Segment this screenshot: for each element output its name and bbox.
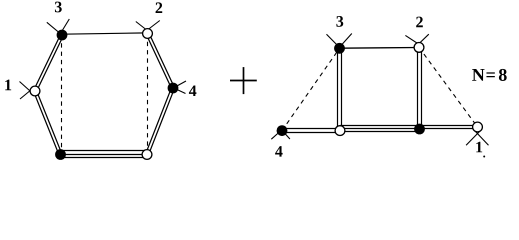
external leg cross at node 3 (left diagram) xyxy=(47,22,65,37)
plus sign between diagrams xyxy=(230,80,257,82)
wire: double edge 4-bottom-right (left diagram) xyxy=(146,87,172,154)
wire: double vertical edge 3-to-bottom (right diagram) xyxy=(337,48,339,130)
wire: dashed chord 3-to-bottom-left (left diagram) xyxy=(61,35,63,155)
external leg cross at node 4 (right diagram) xyxy=(271,128,284,140)
external leg cross at node 3 (right diagram) xyxy=(327,34,343,50)
external leg cross at node 2 (left diagram) xyxy=(136,22,151,34)
wire: dashed chord 2-to-bottom-right (left diagram) xyxy=(147,34,149,155)
external leg cross at node 1 (right diagram) xyxy=(466,131,480,146)
node: filled bottom mid-right vertex (right diagram) xyxy=(414,124,425,135)
external leg cross at node 2 (right diagram) xyxy=(405,35,421,46)
label 3 (right diagram) xyxy=(336,16,343,27)
node 3: filled vertex (right diagram) xyxy=(334,43,345,54)
wire: single top edge 3-2 (left diagram) xyxy=(62,33,148,34)
external leg cross at node 1 (left diagram) xyxy=(20,82,35,96)
label 2 (right diagram) xyxy=(416,17,423,28)
node 1: open vertex (right diagram) xyxy=(473,122,483,132)
node 1: open vertex (left diagram) xyxy=(30,86,40,96)
node 3: filled vertex (left diagram) xyxy=(57,30,68,41)
stray period dot below label 1 (right diagram) xyxy=(483,156,485,158)
label 3 (left diagram) xyxy=(55,2,62,13)
node 4: filled vertex (left diagram) xyxy=(168,83,179,94)
wire: dashed diagonal 4-3 (right diagram) xyxy=(282,48,340,130)
annotation N = 8 xyxy=(472,69,484,81)
node 2: open vertex (right diagram) xyxy=(414,43,424,53)
wire: double edge 2-4 (left diagram) xyxy=(146,34,172,89)
node 2: open vertex (left diagram) xyxy=(143,29,153,39)
wire: dashed diagonal 2-1 (right diagram) xyxy=(419,47,478,127)
wire: double edge mid-to-1 (right diagram) xyxy=(420,125,478,127)
wire: triple mid bottom edge (right diagram) xyxy=(340,125,420,127)
external leg cross at node 4 (left diagram) xyxy=(171,81,187,90)
wire: double edge 1-3 (left diagram) xyxy=(36,36,63,92)
node: open bottom-right vertex (left diagram) xyxy=(142,150,152,160)
wire: double edge bottom-left-1 (left diagram) xyxy=(36,90,62,154)
label 2 (left diagram) xyxy=(156,2,163,13)
node: filled bottom-left vertex (left diagram) xyxy=(55,149,66,160)
label 1 (right diagram) xyxy=(476,142,482,153)
wire: triple bottom edge (left diagram) xyxy=(61,150,148,152)
label 4 (right diagram) xyxy=(275,146,282,157)
wire: double vertical edge 2-to-bottom (right diagram) xyxy=(417,47,419,129)
wire: single top edge 3-2 (right diagram) xyxy=(340,47,420,50)
label 1 (left diagram) xyxy=(5,80,11,91)
label 4 (left diagram) xyxy=(189,85,196,96)
node 4: filled vertex (right diagram) xyxy=(277,125,288,136)
node: open bottom mid-left vertex (right diagram) xyxy=(335,126,345,136)
wire: double edge 4-to-mid (right diagram) xyxy=(282,128,340,130)
